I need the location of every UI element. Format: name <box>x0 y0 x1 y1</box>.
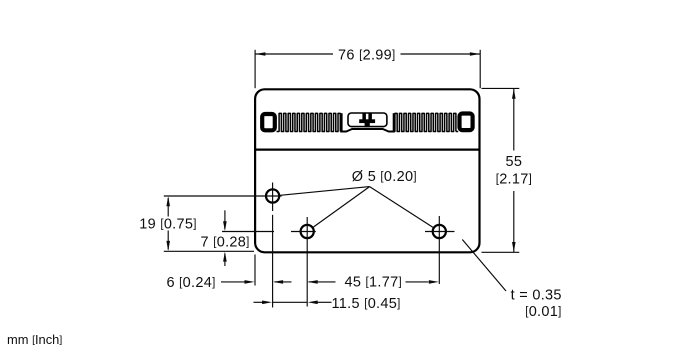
svg-text:55: 55 <box>506 154 523 170</box>
svg-text:Ø 5 [0.20]: Ø 5 [0.20] <box>352 169 417 185</box>
svg-text:45 [1.77]: 45 [1.77] <box>344 275 401 291</box>
svg-text:11.5 [0.45]: 11.5 [0.45] <box>332 296 401 312</box>
svg-text:[2.17]: [2.17] <box>496 172 532 188</box>
svg-text:t = 0.35: t = 0.35 <box>511 287 562 303</box>
svg-text:76 [2.99]: 76 [2.99] <box>338 48 395 64</box>
svg-text:[0.01]: [0.01] <box>525 304 561 320</box>
svg-text:6 [0.24]: 6 [0.24] <box>166 275 215 291</box>
svg-text:mm [Inch]: mm [Inch] <box>7 332 62 347</box>
svg-text:19 [0.75]: 19 [0.75] <box>139 217 196 233</box>
svg-text:7 [0.28]: 7 [0.28] <box>201 234 250 250</box>
